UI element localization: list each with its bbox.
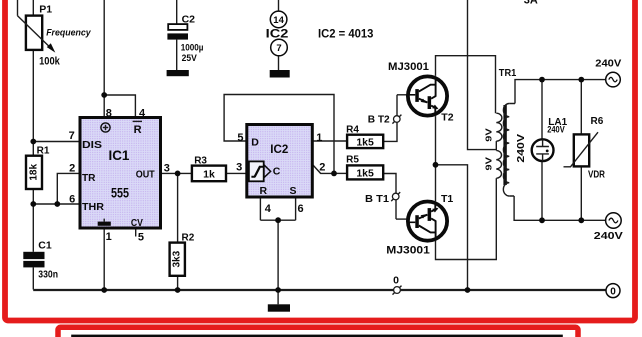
wire R1 bottom to THR rail [32, 189, 34, 204]
wire Q-bar pin1 to R4 [312, 140, 347, 142]
terminal 0 on rail [393, 274, 402, 294]
wire secondary top rail [515, 80, 606, 104]
svg-text:7: 7 [276, 43, 281, 54]
wire C1 to 0V rail [32, 267, 34, 289]
resistor R5 [346, 155, 383, 180]
core [503, 105, 506, 185]
wire T1 base [396, 218, 408, 220]
svg-text:100k: 100k [39, 55, 61, 67]
node rail emitters [465, 287, 471, 293]
capacitor C1 [23, 240, 58, 281]
wire P1 top feed [32, 0, 34, 16]
svg-text:T2: T2 [441, 111, 453, 123]
svg-text:TR1: TR1 [499, 67, 517, 79]
svg-text:MJ3001: MJ3001 [388, 61, 429, 73]
wire P1 bottom to node A [32, 50, 34, 156]
svg-text:0: 0 [393, 274, 399, 286]
IC2 pin 14 bubble [270, 11, 287, 28]
svg-text:R: R [134, 124, 142, 136]
svg-text:R4: R4 [346, 124, 359, 135]
svg-text:3: 3 [164, 163, 170, 175]
svg-text:THR: THR [82, 201, 104, 213]
svg-text:CV: CV [131, 217, 143, 229]
svg-text:1: 1 [316, 132, 322, 144]
node LA1 bottom [539, 217, 545, 223]
clock input symbol [249, 161, 264, 181]
ground below C2 [167, 70, 189, 76]
svg-text:C2: C2 [182, 14, 196, 26]
node rail R2 [175, 287, 181, 293]
ground below pin 7 [270, 70, 290, 78]
node Q feedback [331, 171, 337, 177]
ground inside IC1 pin1 [98, 222, 111, 226]
svg-text:2: 2 [319, 162, 325, 174]
svg-text:6: 6 [298, 203, 304, 215]
secondary winding 240V [503, 104, 509, 196]
svg-text:5: 5 [138, 232, 144, 244]
svg-text:330n: 330n [38, 270, 58, 281]
svg-text:B T2: B T2 [368, 113, 390, 125]
svg-text:B T1: B T1 [365, 193, 389, 205]
wire IC1 pin8 supply [103, 0, 105, 118]
svg-text:P1: P1 [39, 4, 52, 16]
node OUT/R2 [175, 171, 181, 177]
node emitters [433, 162, 439, 168]
svg-text:1: 1 [106, 231, 112, 243]
transistor T2 MJ3001 darlington [408, 76, 447, 115]
wire secondary bottom rail [514, 196, 605, 220]
wire C2 to ground [176, 40, 178, 70]
wire C2 top [176, 0, 178, 24]
flip-flop IC2 4013 [236, 125, 325, 215]
svg-text:14: 14 [273, 15, 284, 26]
svg-text:3A: 3A [524, 0, 538, 6]
node rail pin1 [101, 287, 107, 293]
op IC1 555 timer [69, 107, 170, 243]
wire T2 base [397, 94, 408, 96]
svg-text:6: 6 [69, 193, 75, 205]
svg-text:R: R [260, 185, 268, 197]
resistor R2 [170, 232, 195, 276]
svg-text:DIS: DIS [82, 139, 102, 151]
svg-text:555: 555 [111, 185, 129, 200]
wire node THR to C1 [32, 204, 34, 252]
lamp LA1 [532, 117, 568, 161]
node supply/pin8 [101, 92, 107, 98]
wire DIS pin7 [33, 141, 78, 143]
wire IC1 pin1 to 0V rail [103, 230, 105, 291]
wire R6 bottom leg [580, 166, 582, 220]
wire R4 to BT2 riser [383, 95, 397, 142]
terminal BT2 [368, 113, 402, 125]
wire emitter node to 0V rail [436, 165, 468, 290]
svg-text:8: 8 [106, 107, 112, 119]
node R/S [275, 217, 281, 223]
wire R2 to 0V rail [177, 276, 179, 290]
red caption box below [58, 327, 578, 337]
node R6 top [578, 77, 584, 83]
node P1/DIS [30, 139, 36, 145]
svg-text:240V: 240V [547, 124, 565, 135]
wire IC2 pin4 R [259, 197, 261, 220]
wire RS node to ground [277, 220, 279, 304]
node R1/THR [30, 201, 36, 207]
wire T2 collector to primary top [436, 56, 496, 113]
wire IC2 pin14 [278, 0, 280, 11]
svg-text:2: 2 [69, 162, 75, 174]
secondary winding end links [509, 104, 515, 197]
svg-text:D: D [251, 137, 259, 149]
svg-text:C1: C1 [38, 240, 52, 252]
node LA1 top [539, 77, 545, 83]
svg-text:25V: 25V [182, 53, 198, 64]
wire LA1 bottom leg [541, 161, 543, 220]
svg-text:7: 7 [69, 130, 75, 142]
svg-text:5: 5 [237, 132, 243, 144]
terminal 0 output [606, 284, 620, 298]
svg-text:240V: 240V [595, 59, 621, 70]
transformer TR1 [483, 67, 527, 196]
svg-text:IC1: IC1 [109, 147, 130, 163]
wire Q feedback loop to D pin5 [224, 95, 334, 174]
primary winding link [495, 141, 497, 150]
wire IC2 pin7 to ground [278, 56, 280, 70]
wire node Q to R5 [334, 172, 347, 174]
svg-text:3: 3 [236, 162, 242, 174]
wire R3 to clock C [226, 172, 248, 174]
svg-text:9V: 9V [483, 128, 493, 142]
svg-text:R3: R3 [194, 155, 207, 166]
capacitor C2 [167, 14, 203, 64]
wire OUT node to R2 [177, 173, 179, 242]
wire OUT pin3 to R3 [162, 172, 192, 174]
wire fuse feed to centre tap [468, 0, 497, 150]
svg-text:3k3: 3k3 [172, 250, 183, 267]
IC2 pin 7 bubble [271, 39, 288, 56]
wire TR pin2 tee [57, 173, 78, 204]
wire IC2 pin6 S [295, 197, 297, 220]
svg-text:4: 4 [139, 107, 146, 119]
wire R-S link [260, 219, 295, 221]
svg-text:C: C [273, 165, 281, 177]
svg-text:T1: T1 [441, 193, 453, 205]
svg-text:18k: 18k [29, 164, 40, 181]
resistor R1 [26, 145, 50, 189]
svg-text:TR: TR [82, 172, 96, 184]
varistor R6 [564, 116, 606, 180]
wire IC1 pin5 stub [135, 230, 137, 237]
wire T2 emitter to T1 emitter [435, 116, 437, 201]
wire 0V bottom rail [33, 289, 606, 291]
svg-text:1000µ: 1000µ [181, 42, 204, 53]
terminal 240V bottom [594, 213, 623, 243]
svg-text:VDR: VDR [588, 168, 605, 180]
resistor R4 [346, 124, 383, 148]
svg-text:OUT: OUT [136, 168, 155, 180]
primary winding 9V upper [496, 113, 502, 141]
svg-text:MJ3001: MJ3001 [386, 244, 430, 256]
wire LA1 top leg [541, 80, 543, 140]
wire THR pin6 [33, 203, 78, 205]
svg-text:R2: R2 [182, 232, 195, 243]
wire T1 collector to primary bottom [436, 178, 497, 259]
caption inner table border [73, 336, 562, 337]
terminal 240V top [595, 59, 621, 87]
node rail gnd [275, 287, 281, 293]
primary winding 9V lower [496, 150, 501, 178]
wire R6 top leg [580, 80, 582, 135]
svg-text:IC2 = 4013: IC2 = 4013 [318, 26, 374, 40]
potentiometer P1 [18, 4, 92, 68]
wire Q pin2 chamfer [313, 165, 334, 174]
svg-text:240V: 240V [594, 230, 623, 242]
svg-text:S: S [290, 185, 297, 197]
wire P1 wiper tail [17, 0, 19, 16]
svg-text:Frequency: Frequency [46, 28, 91, 38]
node R6 bottom [578, 217, 584, 223]
svg-text:IC2: IC2 [270, 142, 288, 156]
svg-text:R5: R5 [346, 155, 359, 166]
svg-text:1k5: 1k5 [356, 168, 374, 180]
svg-text:R1: R1 [37, 145, 50, 156]
svg-text:0: 0 [610, 286, 616, 297]
svg-text:240V: 240V [516, 134, 527, 163]
wire R5 to BT1 dropper [383, 174, 396, 220]
svg-text:1k: 1k [203, 169, 215, 181]
resistor R3 [192, 155, 226, 181]
svg-text:9V: 9V [483, 157, 493, 171]
wire pin8-pin4 link [104, 95, 135, 118]
node TR/THR [54, 201, 60, 207]
svg-text:1k5: 1k5 [356, 136, 374, 148]
transistor T1 MJ3001 darlington (mirrored) [408, 202, 447, 241]
ground below R/S [268, 304, 290, 311]
svg-text:R6: R6 [591, 116, 604, 127]
svg-text:IC2: IC2 [266, 26, 289, 40]
svg-text:4: 4 [265, 203, 272, 215]
terminal BT1 [365, 192, 400, 205]
